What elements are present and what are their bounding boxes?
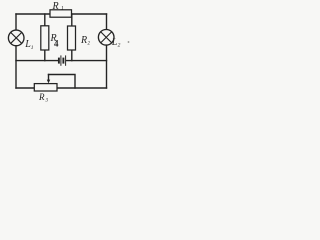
svg-text:2: 2: [118, 43, 121, 49]
svg-text:1: 1: [61, 6, 64, 12]
svg-text:R: R: [38, 92, 45, 102]
svg-text:1: 1: [31, 45, 34, 51]
svg-text:R: R: [80, 35, 87, 46]
svg-text:4: 4: [54, 39, 59, 49]
svg-text:R: R: [52, 1, 59, 12]
